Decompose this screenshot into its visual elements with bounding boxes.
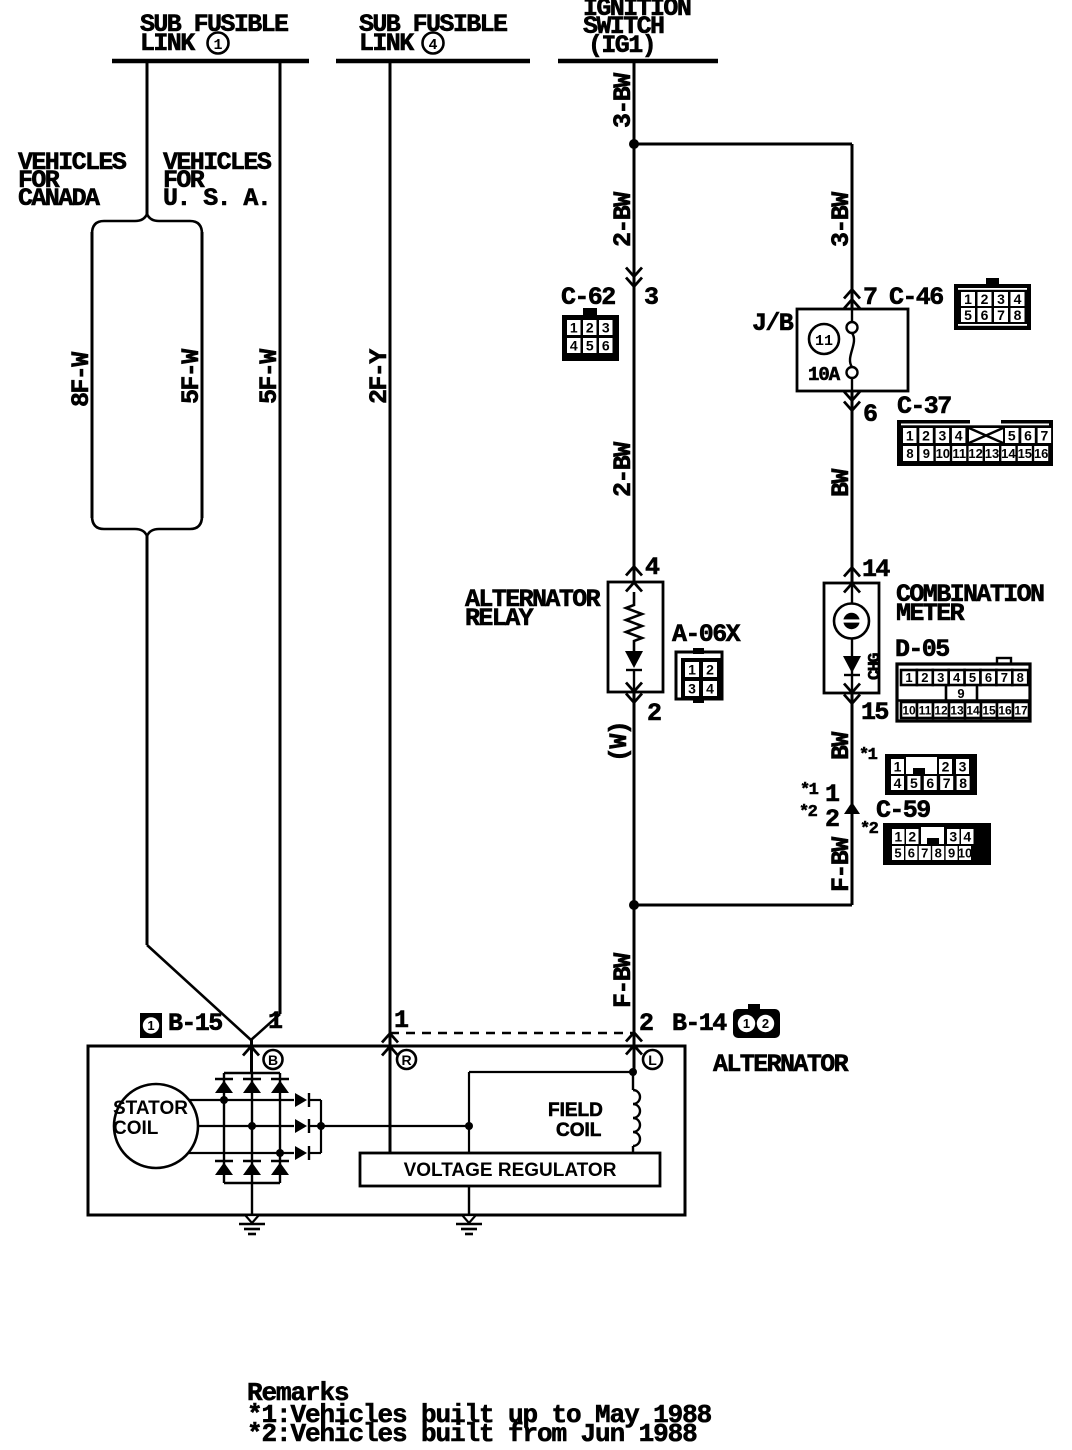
svg-text:11: 11 <box>952 446 966 461</box>
wire regulator to ground <box>468 1186 470 1215</box>
circled 4 (sub fusible link 4) <box>423 33 444 54</box>
brace top (branch split) <box>92 214 202 234</box>
svg-text:*2:Vehicles built from Jun 198: *2:Vehicles built from Jun 1988 <box>247 1419 697 1449</box>
svg-text:13: 13 <box>985 446 999 461</box>
svg-text:2: 2 <box>921 670 928 685</box>
svg-text:7: 7 <box>943 775 951 791</box>
svg-text:2: 2 <box>762 1016 769 1031</box>
connector A-06X pinout <box>676 652 722 699</box>
wire relay to junction (W) <box>633 692 636 905</box>
svg-text:6: 6 <box>908 846 915 861</box>
trio output bus <box>320 1100 322 1153</box>
svg-text:L: L <box>648 1052 657 1068</box>
wire 8F-W canada branch <box>91 232 94 518</box>
wire trio output to regulator <box>321 1125 469 1127</box>
svg-text:BW: BW <box>827 469 856 497</box>
svg-text:*1: *1 <box>859 746 878 765</box>
svg-text:RELAY: RELAY <box>465 604 534 633</box>
svg-text:R: R <box>401 1052 411 1068</box>
svg-text:15: 15 <box>982 703 996 717</box>
svg-text:2: 2 <box>922 428 930 444</box>
svg-text:*2: *2 <box>860 820 879 839</box>
wire rectifier to ground <box>251 1183 253 1215</box>
svg-text:4: 4 <box>963 829 971 845</box>
svg-text:1: 1 <box>906 428 914 444</box>
meter diode <box>843 656 861 673</box>
alternator pin B marker <box>243 1047 259 1056</box>
rectifier leg 1 <box>223 1073 225 1183</box>
connector C-59 arrow marker <box>844 802 860 814</box>
svg-text:4: 4 <box>955 428 963 444</box>
wire diagonal to alternator B terminal <box>251 1014 280 1040</box>
ground (rectifier) <box>245 1215 259 1223</box>
svg-text:ALTERNATOR: ALTERNATOR <box>713 1050 849 1079</box>
connector C-62 pinout <box>562 315 619 361</box>
svg-text:C-37: C-37 <box>897 392 951 421</box>
relay diode <box>625 651 643 668</box>
charge warning lamp <box>834 604 869 639</box>
svg-text:1: 1 <box>570 320 578 336</box>
svg-text:BW: BW <box>827 732 856 760</box>
wire 3-BW right branch down to J/B <box>851 144 854 309</box>
svg-text:6: 6 <box>926 775 934 791</box>
svg-text:STATOR: STATOR <box>113 1098 188 1119</box>
connector D-05 pinout <box>897 664 1030 721</box>
fuse 10A symbol <box>851 309 853 322</box>
relay coil (resistor zigzag) <box>626 592 642 651</box>
svg-text:6: 6 <box>981 307 989 323</box>
svg-text:1: 1 <box>964 291 972 307</box>
svg-text:8: 8 <box>959 775 967 791</box>
svg-text:3: 3 <box>997 291 1005 307</box>
svg-text:A-06X: A-06X <box>672 620 741 649</box>
rectifier diodes (top row) <box>215 1078 233 1081</box>
svg-text:METER: METER <box>896 599 965 628</box>
J/B pin 7 marker <box>844 290 860 299</box>
svg-text:11: 11 <box>919 703 932 717</box>
relay pin 4 marker <box>626 567 642 576</box>
svg-text:B-14: B-14 <box>672 1009 727 1038</box>
circled 11 (fuse number) <box>809 324 839 354</box>
junction node F-BW <box>629 900 639 910</box>
svg-text:COIL: COIL <box>556 1120 602 1141</box>
svg-text:*2: *2 <box>799 803 818 822</box>
connector C-46 pinout <box>954 284 1031 330</box>
wire 2F-Y from SFL4 bus to voltage regulator (pin R) <box>389 63 392 1153</box>
svg-text:5: 5 <box>969 670 976 685</box>
rectifier diodes (bottom row) <box>215 1160 233 1163</box>
svg-text:1: 1 <box>743 1016 750 1031</box>
wire to voltage regulator input <box>468 1072 470 1153</box>
dashed link between alternator pins 1 and 2 <box>390 1032 634 1035</box>
stator coil circle <box>114 1084 198 1168</box>
wire from SFL1 bus down to brace <box>146 63 149 215</box>
connector B-15 symbol <box>140 1013 162 1038</box>
svg-text:4: 4 <box>953 670 961 685</box>
rectifier top rail <box>224 1072 280 1074</box>
svg-text:2: 2 <box>908 829 916 845</box>
svg-text:8: 8 <box>1017 670 1024 685</box>
svg-text:11: 11 <box>815 333 833 350</box>
svg-text:16: 16 <box>1034 446 1048 461</box>
svg-text:14: 14 <box>966 703 980 717</box>
svg-text:5: 5 <box>964 307 972 323</box>
meter pin 15 marker <box>844 684 860 693</box>
wire 5F-W from SFL1 bus to alternator <box>279 63 282 1014</box>
svg-text:1: 1 <box>688 662 696 678</box>
svg-text:15: 15 <box>861 698 888 727</box>
svg-text:8F-W: 8F-W <box>67 352 96 407</box>
alternator pin L marker <box>626 1033 642 1042</box>
terminal L circled letter <box>643 1050 662 1069</box>
svg-text:9: 9 <box>923 446 930 461</box>
svg-text:F-BW: F-BW <box>609 953 638 1008</box>
connector C-37 pinout <box>897 420 1053 466</box>
svg-text:8: 8 <box>1014 307 1022 323</box>
svg-text:6: 6 <box>1024 428 1032 444</box>
J/B pin 6 marker <box>844 392 860 401</box>
junction block J/B box <box>797 309 908 391</box>
wire through meter <box>851 583 853 693</box>
rectifier leg 3 <box>279 1073 281 1183</box>
rectifier leg 2 <box>251 1073 253 1183</box>
alternator box <box>88 1046 685 1215</box>
svg-text:2: 2 <box>639 1009 653 1038</box>
svg-text:10A: 10A <box>808 364 841 386</box>
svg-text:U. S. A.: U. S. A. <box>163 184 270 213</box>
junction at regulator feed <box>465 1122 473 1130</box>
stator phase line 3 <box>156 1152 294 1154</box>
alternator relay box <box>608 582 663 692</box>
svg-text:7: 7 <box>1001 670 1008 685</box>
wire horizontal to right branch <box>634 143 852 146</box>
svg-text:B-15: B-15 <box>168 1009 222 1038</box>
svg-text:7: 7 <box>1040 428 1048 444</box>
svg-text:4: 4 <box>706 681 714 697</box>
svg-text:1: 1 <box>268 1007 282 1036</box>
meter pin 14 marker <box>844 568 860 577</box>
connector C-62 marker arrows <box>626 268 642 277</box>
svg-text:CHG: CHG <box>866 653 885 680</box>
svg-text:3: 3 <box>959 759 967 775</box>
svg-text:3: 3 <box>602 320 610 336</box>
svg-text:5F-W: 5F-W <box>255 349 284 404</box>
svg-text:7: 7 <box>921 846 928 861</box>
junction node ignition split <box>629 139 639 149</box>
svg-text:4: 4 <box>645 553 660 582</box>
diode trio <box>295 1093 307 1107</box>
junction field coil / pin L <box>629 1068 637 1076</box>
wire merged branch down <box>146 535 149 945</box>
stator phase line 2 <box>156 1125 294 1127</box>
wire ignition 3-BW/2-BW down to alternator relay <box>633 63 636 582</box>
svg-text:C-59: C-59 <box>876 796 930 825</box>
svg-text:2-BW: 2-BW <box>609 442 638 497</box>
svg-text:2: 2 <box>825 805 839 834</box>
svg-text:2: 2 <box>981 291 989 307</box>
svg-text:5: 5 <box>894 846 901 861</box>
svg-text:3: 3 <box>937 670 944 685</box>
svg-text:5: 5 <box>1008 428 1016 444</box>
junction trio output <box>317 1122 325 1130</box>
terminal B circled letter <box>264 1050 283 1069</box>
wire BW/F-BW from meter to junction <box>851 693 854 905</box>
svg-text:2-BW: 2-BW <box>609 192 638 247</box>
svg-text:6: 6 <box>602 338 610 354</box>
svg-text:(W): (W) <box>605 722 634 762</box>
svg-text:4: 4 <box>894 775 902 791</box>
svg-text:COIL: COIL <box>113 1118 159 1139</box>
svg-text:CANADA: CANADA <box>18 184 100 213</box>
wire BW from J/B to combination meter <box>851 391 854 583</box>
svg-text:9: 9 <box>957 686 964 701</box>
svg-text:12: 12 <box>968 446 982 461</box>
svg-text:1: 1 <box>394 1006 408 1035</box>
svg-text:14: 14 <box>862 555 890 584</box>
combination meter box <box>824 583 879 693</box>
svg-text:12: 12 <box>934 703 948 717</box>
svg-text:7: 7 <box>997 307 1005 323</box>
svg-text:1: 1 <box>905 670 912 685</box>
svg-text:10: 10 <box>902 703 916 717</box>
brace bottom (branch merge) <box>92 516 202 536</box>
ground (voltage regulator) <box>462 1215 476 1223</box>
svg-text:2: 2 <box>942 759 950 775</box>
wire F-BW down to alternator pin L <box>633 905 636 1072</box>
crossed unused slot <box>969 428 1003 443</box>
svg-text:(IG1): (IG1) <box>588 31 655 60</box>
svg-text:2: 2 <box>586 320 594 336</box>
svg-text:1: 1 <box>147 1018 154 1033</box>
svg-text:C-62: C-62 <box>561 283 615 312</box>
wire to field coil top <box>469 1071 633 1073</box>
wire pin B to rectifier <box>250 1040 253 1073</box>
svg-text:1: 1 <box>894 829 902 845</box>
svg-text:B: B <box>268 1052 278 1068</box>
svg-text:10: 10 <box>958 846 972 861</box>
svg-text:4: 4 <box>428 37 437 54</box>
voltage regulator box <box>360 1153 660 1186</box>
connector C-59 pinout (vehicles up to May 1988) <box>885 754 977 795</box>
svg-text:2F-Y: 2F-Y <box>365 349 394 404</box>
svg-text:10: 10 <box>936 446 950 461</box>
svg-text:8: 8 <box>906 446 913 461</box>
svg-text:LINK: LINK <box>359 29 414 58</box>
wire 5F-W usa branch <box>201 232 204 518</box>
svg-text:16: 16 <box>998 703 1012 717</box>
svg-text:3: 3 <box>938 428 946 444</box>
bus sub fusible link 1 <box>112 59 309 64</box>
svg-text:J/B: J/B <box>752 309 794 338</box>
relay pin 2 marker <box>626 683 642 692</box>
svg-text:2: 2 <box>647 699 661 728</box>
svg-text:5F-W: 5F-W <box>177 349 206 404</box>
svg-text:14: 14 <box>1001 446 1016 461</box>
svg-text:*1: *1 <box>800 781 819 800</box>
svg-text:F-BW: F-BW <box>827 837 856 892</box>
bus sub fusible link 4 <box>336 59 530 64</box>
rectifier bottom rail <box>224 1182 280 1184</box>
connector B-14 symbol <box>733 1009 780 1038</box>
svg-text:5: 5 <box>910 775 918 791</box>
svg-text:15: 15 <box>1018 446 1032 461</box>
alternator pin R marker <box>382 1034 398 1043</box>
wire horizontal F-BW join <box>634 904 852 907</box>
svg-text:3: 3 <box>688 681 696 697</box>
svg-text:9: 9 <box>948 846 955 861</box>
svg-text:4: 4 <box>570 338 578 354</box>
svg-text:1: 1 <box>213 37 222 54</box>
svg-text:4: 4 <box>1014 291 1022 307</box>
svg-text:6: 6 <box>863 400 877 429</box>
svg-text:6: 6 <box>985 670 992 685</box>
circled 1 (sub fusible link 1) <box>208 33 229 54</box>
stator phase line 1 <box>156 1099 294 1101</box>
field coil <box>632 1072 634 1090</box>
wire diagonal to alternator B terminal <box>147 945 251 1040</box>
junction dots: stator phases to rectifier legs <box>220 1096 228 1104</box>
terminal R circled letter <box>397 1050 416 1069</box>
bus ignition switch <box>558 59 718 64</box>
svg-text:8: 8 <box>935 846 942 861</box>
svg-text:2: 2 <box>706 662 714 678</box>
svg-text:5: 5 <box>586 338 594 354</box>
svg-text:FIELD: FIELD <box>548 1100 603 1121</box>
svg-text:1: 1 <box>894 759 902 775</box>
svg-text:3: 3 <box>644 283 658 312</box>
svg-text:D-05: D-05 <box>895 635 949 664</box>
svg-text:3-BW: 3-BW <box>609 73 638 128</box>
svg-text:3-BW: 3-BW <box>827 192 856 247</box>
svg-text:LINK: LINK <box>140 29 195 58</box>
connector C-59 pinout (vehicles from Jun 1988) <box>883 823 991 865</box>
svg-text:3: 3 <box>949 829 957 845</box>
svg-text:VOLTAGE REGULATOR: VOLTAGE REGULATOR <box>404 1160 617 1181</box>
svg-text:13: 13 <box>950 703 964 717</box>
svg-text:17: 17 <box>1014 703 1028 717</box>
